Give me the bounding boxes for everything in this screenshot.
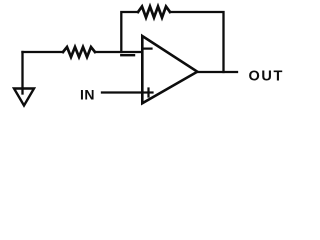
svg-text:OUT: OUT — [249, 68, 284, 84]
svg-text:IN: IN — [80, 86, 95, 102]
